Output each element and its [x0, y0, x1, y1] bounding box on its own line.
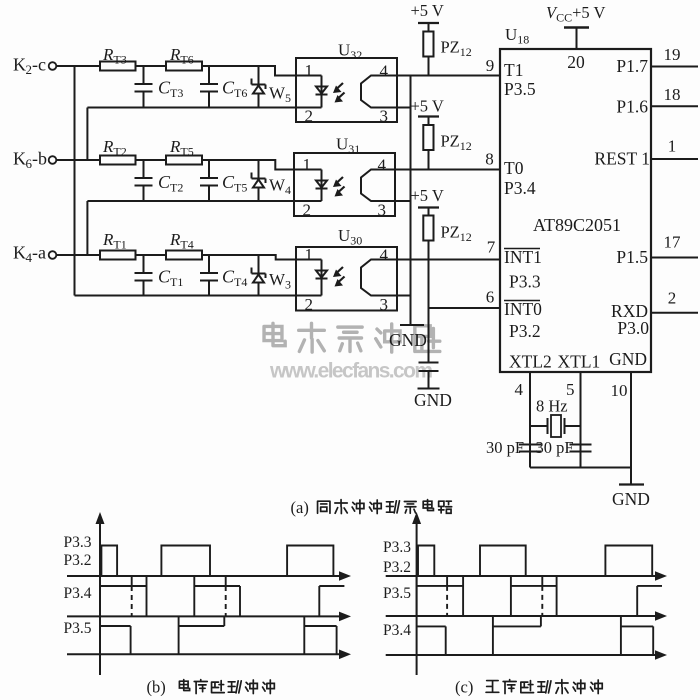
diagram b: y axis [96, 512, 105, 675]
svg-text:T0: T0 [504, 158, 524, 178]
diagram c: baseline P3.4 [386, 650, 667, 660]
resistor PZ12 (a) [423, 32, 471, 76]
IC U18 AT89C2051 box [500, 25, 651, 372]
zener W5 [252, 66, 292, 108]
trace P3.3 pulses [101, 546, 333, 577]
wire [136, 254, 167, 256]
+5 V supply [411, 186, 444, 216]
wire [56, 159, 100, 161]
svg-text:+5 V: +5 V [411, 186, 444, 205]
diagram c: baseline P3.5 [386, 611, 667, 621]
label INT1 [504, 247, 542, 267]
op-amp U30 (optocoupler) [296, 226, 397, 311]
+5 V supply [411, 97, 444, 126]
label P3.4 [383, 622, 411, 639]
svg-text:+5 V: +5 V [411, 1, 444, 20]
svg-text:4: 4 [380, 246, 389, 265]
svg-text:P3.2: P3.2 [64, 552, 92, 569]
wire rail [87, 200, 321, 202]
pin 6 [486, 288, 495, 307]
zener W3 [252, 255, 292, 296]
svg-text:(a): (a) [291, 498, 309, 517]
pin 3 [380, 107, 389, 126]
photodetector [361, 170, 395, 202]
svg-text:4: 4 [515, 380, 524, 399]
photodetector [361, 76, 397, 108]
wire [202, 160, 322, 170]
caption (c) [455, 678, 602, 697]
svg-text:P3.4: P3.4 [504, 178, 536, 198]
svg-text:INT0: INT0 [504, 299, 542, 319]
svg-text:GND: GND [609, 349, 647, 369]
capacitor to ground [419, 363, 439, 389]
label P3.0 [617, 318, 649, 338]
capacitor CT5 [200, 160, 247, 201]
diagram b: baseline P3.2 [67, 571, 351, 581]
svg-text:XTL1: XTL1 [558, 352, 601, 372]
svg-text:P3.2: P3.2 [383, 559, 411, 576]
svg-text:6: 6 [486, 288, 495, 307]
label P3.4 [504, 178, 536, 198]
svg-text:1: 1 [668, 137, 677, 156]
resistor PZ12 (b) [423, 125, 471, 170]
svg-text:P3.5: P3.5 [504, 79, 536, 99]
svg-text:REST 1: REST 1 [594, 149, 650, 169]
svg-text:2: 2 [305, 295, 314, 314]
ground [389, 325, 427, 350]
wire [136, 65, 167, 67]
wire XTL1 pin 5 [566, 372, 581, 468]
label P3.3 [64, 534, 92, 551]
pin 1 [303, 155, 312, 174]
light arrows [333, 83, 345, 103]
label T0 [504, 158, 524, 178]
svg-text:8: 8 [485, 150, 494, 169]
wire U31 pin4 to U18 pin8 [396, 169, 500, 171]
svg-text:K: K [13, 243, 26, 263]
ground [414, 389, 452, 411]
svg-text:10: 10 [611, 381, 628, 400]
label XTL2 [509, 352, 552, 372]
light arrows [333, 267, 345, 287]
svg-text:-a: -a [32, 243, 46, 263]
pin 17 wire [651, 233, 698, 258]
svg-text:P3.2: P3.2 [509, 321, 541, 341]
LED diode [316, 170, 328, 202]
label T1 [504, 60, 523, 80]
svg-text:18: 18 [664, 85, 681, 104]
wire [136, 159, 167, 161]
svg-text:30 pF: 30 pF [536, 438, 574, 457]
svg-text:17: 17 [664, 233, 682, 252]
trace P3.5 [417, 576, 662, 616]
svg-text:VCC+5 V: VCC+5 V [546, 3, 605, 25]
svg-text:2: 2 [303, 201, 312, 220]
caption (a) [291, 498, 452, 517]
caption (b) [147, 678, 275, 697]
pin 9 [486, 56, 495, 75]
watermark [264, 323, 440, 382]
wire [56, 65, 100, 67]
wire pin3 stub row3 [397, 295, 411, 297]
svg-text:-c: -c [32, 55, 46, 75]
wire [202, 255, 322, 260]
svg-text:P3.4: P3.4 [64, 585, 92, 602]
svg-text:T1: T1 [504, 60, 523, 80]
label REST 1 [594, 149, 650, 169]
diagram c: baseline P3.2 [386, 571, 667, 581]
LED diode [316, 260, 328, 296]
resistor RT3 [100, 45, 136, 71]
label P1.6 [616, 97, 648, 117]
pin 4 [380, 246, 389, 265]
label P3.2 [64, 552, 92, 569]
wire [202, 66, 322, 76]
node K6-b [13, 149, 56, 172]
svg-text:INT1: INT1 [504, 247, 542, 267]
capacitor CT6 [200, 66, 247, 108]
svg-text:P1.5: P1.5 [616, 247, 648, 267]
svg-text:3: 3 [380, 295, 389, 314]
zener W4 [252, 160, 292, 201]
trace P3.4 [417, 616, 654, 655]
svg-text:P3.5: P3.5 [64, 620, 92, 637]
crystal 8 Hz [530, 397, 581, 438]
label P3.5 [504, 79, 536, 99]
node K4-a [13, 243, 56, 266]
capacitor 30 pF (left) [486, 438, 541, 457]
diagram b: baseline P3.5 [67, 650, 351, 660]
svg-text:P3.3: P3.3 [509, 272, 541, 292]
pin 2 [305, 107, 314, 126]
svg-text:(b): (b) [147, 678, 166, 697]
svg-text:8 Hz: 8 Hz [536, 397, 568, 416]
svg-text:7: 7 [487, 238, 496, 257]
pin 1 [305, 245, 314, 264]
wire U18 pin6 [429, 307, 501, 309]
pin 19 wire [651, 45, 698, 67]
resistor RT2 [100, 137, 136, 165]
wire U32 pin4 to U18 pin9 [397, 75, 500, 77]
svg-text:(c): (c) [455, 678, 473, 697]
capacitor CT3 [135, 66, 184, 108]
capacitor CT4 [200, 255, 247, 296]
label AT89C2051 [533, 215, 621, 235]
svg-text:1: 1 [303, 155, 312, 174]
label P3.5 [383, 585, 411, 602]
label P3.3 [509, 272, 541, 292]
svg-text:20: 20 [567, 52, 585, 72]
trace P3.4 [100, 576, 344, 616]
pin 7 [487, 238, 496, 257]
resistor RT5 [166, 137, 202, 165]
label RXD [611, 301, 648, 321]
wire XTL2 pin 4 [515, 372, 531, 468]
svg-text:K: K [13, 149, 26, 169]
label P3.2 [383, 559, 411, 576]
svg-text:P1.6: P1.6 [616, 97, 648, 117]
label P1.5 [616, 247, 648, 267]
ground [612, 485, 650, 510]
svg-text:www.elecfans.com: www.elecfans.com [269, 360, 433, 383]
svg-text:P1.7: P1.7 [616, 56, 648, 76]
photodetector [361, 260, 397, 296]
resistor RT4 [166, 230, 202, 260]
svg-text:3: 3 [378, 201, 387, 220]
label XTL1 [558, 352, 601, 372]
svg-text:2: 2 [668, 289, 677, 308]
label P3.5 [64, 620, 92, 637]
LED diode [316, 76, 328, 108]
capacitor CT2 [135, 160, 184, 201]
svg-text:GND: GND [612, 489, 650, 509]
svg-text:3: 3 [380, 107, 389, 126]
capacitor CT1 [135, 255, 184, 296]
pin 1 [305, 61, 314, 80]
op-amp U31 (optocoupler) [294, 135, 395, 217]
wire GND bus (vertical) [410, 76, 412, 326]
svg-text:-b: -b [32, 149, 47, 169]
resistor RT6 [166, 45, 202, 71]
resistor RT1 [100, 230, 136, 260]
label P3.2 [509, 321, 541, 341]
pin 2 [305, 295, 314, 314]
light arrows [333, 177, 345, 197]
svg-text:GND: GND [389, 330, 427, 350]
wire pin3 stub row1 [397, 107, 411, 109]
svg-text:P3.3: P3.3 [64, 534, 92, 551]
label P3.3 [383, 539, 411, 556]
wire row2 rail to K4-a (vertical) [86, 201, 88, 255]
wire pin7 to pin6 (vertical) [428, 260, 430, 363]
pin 3 [378, 201, 387, 220]
op-amp U32 (optocoupler) [296, 41, 397, 123]
label GND [609, 349, 647, 369]
svg-text:1: 1 [305, 245, 314, 264]
trace P3.3 pulses [418, 546, 652, 577]
svg-text:AT89C2051: AT89C2051 [533, 215, 621, 235]
wire K2-c to row1 rail (vertical) [74, 66, 76, 296]
capacitor 30 pF (right) [536, 438, 592, 457]
svg-text:P3.0: P3.0 [617, 318, 649, 338]
pin 4 [378, 156, 387, 175]
resistor PZ12 (c) [423, 216, 471, 260]
svg-text:4: 4 [378, 156, 387, 175]
svg-text:19: 19 [664, 45, 681, 64]
pin 18 wire [651, 85, 698, 106]
label P1.7 [616, 56, 648, 76]
wire row1 rail to K6-b (vertical) [86, 108, 88, 161]
svg-text:30 pF: 30 pF [486, 438, 524, 457]
diagram b: baseline P3.4 [67, 612, 351, 622]
wire rail [87, 107, 321, 109]
svg-text:1: 1 [305, 61, 314, 80]
wire U30 pin4 to U18 pin7 [397, 259, 500, 261]
svg-text:P3.4: P3.4 [383, 622, 411, 639]
label P3.4 [64, 585, 92, 602]
pin 3 [380, 295, 389, 314]
svg-text:K: K [13, 55, 26, 75]
wire [56, 254, 100, 256]
diagram c: y axis [412, 512, 421, 675]
svg-text:GND: GND [414, 390, 452, 410]
pin 2 wire [651, 289, 698, 313]
wire pin3 stub row2 [396, 200, 411, 202]
pin 2 [303, 201, 312, 220]
svg-text:P3.3: P3.3 [383, 539, 411, 556]
trace P3.5 [100, 616, 337, 654]
svg-text:4: 4 [380, 62, 389, 81]
+5 V supply [411, 1, 444, 32]
label INT0 [504, 299, 542, 319]
wire GND pin 10 [611, 372, 632, 485]
svg-text:P3.5: P3.5 [383, 585, 411, 602]
pin 20 label [567, 52, 585, 72]
node K2-c [13, 55, 56, 78]
wire rail [75, 295, 322, 297]
svg-text:9: 9 [486, 56, 495, 75]
wire crystal bottom rail [530, 467, 631, 469]
pin 1 wire [651, 137, 698, 160]
svg-text:2: 2 [305, 107, 314, 126]
svg-text:+5 V: +5 V [411, 97, 444, 116]
pin 8 [485, 150, 494, 169]
svg-text:XTL2: XTL2 [509, 352, 552, 372]
pin 4 [380, 62, 389, 81]
power VCC+5V [546, 3, 605, 49]
